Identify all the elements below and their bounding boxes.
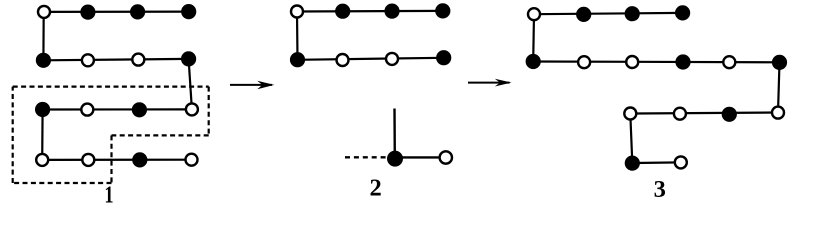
wire fig1 right fold row2-row3 xyxy=(189,59,192,110)
node fig1 r1c2 (filled bead) xyxy=(80,5,95,20)
wire dashed box top edge xyxy=(13,85,209,87)
node fig1 r3c4 (open bead) xyxy=(186,103,198,115)
wire fig2 left fold row1-row2 xyxy=(296,12,299,60)
node fig3 r3c1 (open bead) xyxy=(624,108,636,120)
node fig3 r1c4 (filled bead) xyxy=(675,5,690,20)
wire fig3 row3 backbone xyxy=(630,113,778,114)
wire dashed box right edge xyxy=(208,87,210,136)
monomer motif of figure 2 xyxy=(345,109,452,167)
node fig3 r2c3 (open bead) xyxy=(626,56,638,68)
node fig3 r2c6 (filled bead) xyxy=(772,55,787,70)
wire fig1 left fold row1-row2 xyxy=(42,12,44,60)
node fig2 r2c2 (open bead) xyxy=(337,54,349,66)
node fig1 r1c4 (filled bead) xyxy=(181,4,196,19)
wire dashed box left edge xyxy=(12,87,14,183)
wire fig1 left fold row3-row4 xyxy=(41,110,44,160)
svg-text:3: 3 xyxy=(654,176,666,203)
node fig3 r3c3 (filled bead) xyxy=(722,107,737,122)
node fig2 r1c3 (filled bead) xyxy=(384,4,399,19)
node fig1 r3c1 (filled bead) xyxy=(35,102,50,117)
wire fig3 row1 backbone xyxy=(534,13,683,14)
node fig1 r3c2 (open bead) xyxy=(81,104,93,116)
node fig1 r1c3 (filled bead) xyxy=(130,4,145,19)
wire fig3 row4 backbone xyxy=(632,161,681,164)
node fig1 r3c3 (filled bead) xyxy=(132,102,147,117)
dashed outline of repeat unit in figure 1 xyxy=(13,87,209,183)
arrow 2 (figure2 to figure3) xyxy=(468,79,512,87)
wire fig1 row3 backbone xyxy=(43,108,192,110)
node fig2 r1c4 (filled bead) xyxy=(435,3,450,18)
node fig3 r4c1 (filled bead) xyxy=(625,156,640,171)
node fig2 r2c3 (open bead) xyxy=(386,53,398,65)
wire dashed box step vertical xyxy=(110,135,112,183)
node fig2 r1c1 (open bead) xyxy=(291,6,303,18)
node fig1 r1c1 (open bead) xyxy=(38,6,50,18)
wire dashed box bottom edge xyxy=(13,182,112,184)
wire motif dashed left bond xyxy=(345,156,387,158)
node fig1 r4c1 (open bead) xyxy=(36,154,48,166)
node fig3 r1c3 (filled bead) xyxy=(625,6,640,21)
wire fig3 right fold row2-row3 xyxy=(778,62,780,112)
node fig2 r1c2 (filled bead) xyxy=(335,4,350,19)
node fig1 r4c4 (open bead) xyxy=(186,154,198,166)
wire fig3 left fold row3-row4 xyxy=(630,114,632,164)
wire fig2 row2 backbone xyxy=(298,58,444,60)
node fig3 r2c1 (filled bead) xyxy=(526,54,541,69)
wire fig1 row4 backbone xyxy=(42,159,191,161)
label 1 xyxy=(104,181,113,208)
node fig1 r4c2 (open bead) xyxy=(82,154,94,166)
node fig3 r2c5 (open bead) xyxy=(723,56,735,68)
arrow 1 (figure1 to figure2) xyxy=(230,81,274,89)
wire motif right bond xyxy=(395,156,440,158)
node fig1 r4c3 (filled bead) xyxy=(132,152,147,167)
node fig3 r4c2 (open bead) xyxy=(675,156,687,168)
node fig3 r3c4 (open bead) xyxy=(772,107,784,119)
node motif center (filled bead) xyxy=(387,151,403,167)
node fig1 r2c1 (filled bead) xyxy=(36,53,51,68)
wire dashed box step horizontal xyxy=(112,134,209,136)
node fig3 r1c2 (filled bead) xyxy=(576,7,591,22)
node fig3 r2c4 (filled bead) xyxy=(675,54,690,69)
wire fig2 row1 backbone xyxy=(297,10,443,13)
node fig3 r2c2 (open bead) xyxy=(578,56,590,68)
wire motif vertical bond xyxy=(393,109,396,158)
node fig1 r2c3 (open bead) xyxy=(132,54,144,66)
wire fig1 row1 backbone xyxy=(44,11,189,13)
wire fig1 row2 backbone xyxy=(43,59,188,60)
node fig2 r2c1 (filled bead) xyxy=(290,52,305,67)
node fig3 r1c1 (open bead) xyxy=(528,8,540,20)
wire fig3 left fold row1-row2 xyxy=(532,14,535,61)
node fig2 r2c4 (filled bead) xyxy=(436,50,451,65)
node motif end (open bead) xyxy=(440,151,452,163)
node fig1 r2c2 (open bead) xyxy=(82,54,94,66)
svg-text:1: 1 xyxy=(104,181,113,208)
svg-text:2: 2 xyxy=(369,175,381,202)
node fig3 r3c2 (open bead) xyxy=(674,108,686,120)
wire fig3 row2 backbone xyxy=(533,60,779,63)
node fig1 r2c4 (filled bead) xyxy=(181,51,196,66)
